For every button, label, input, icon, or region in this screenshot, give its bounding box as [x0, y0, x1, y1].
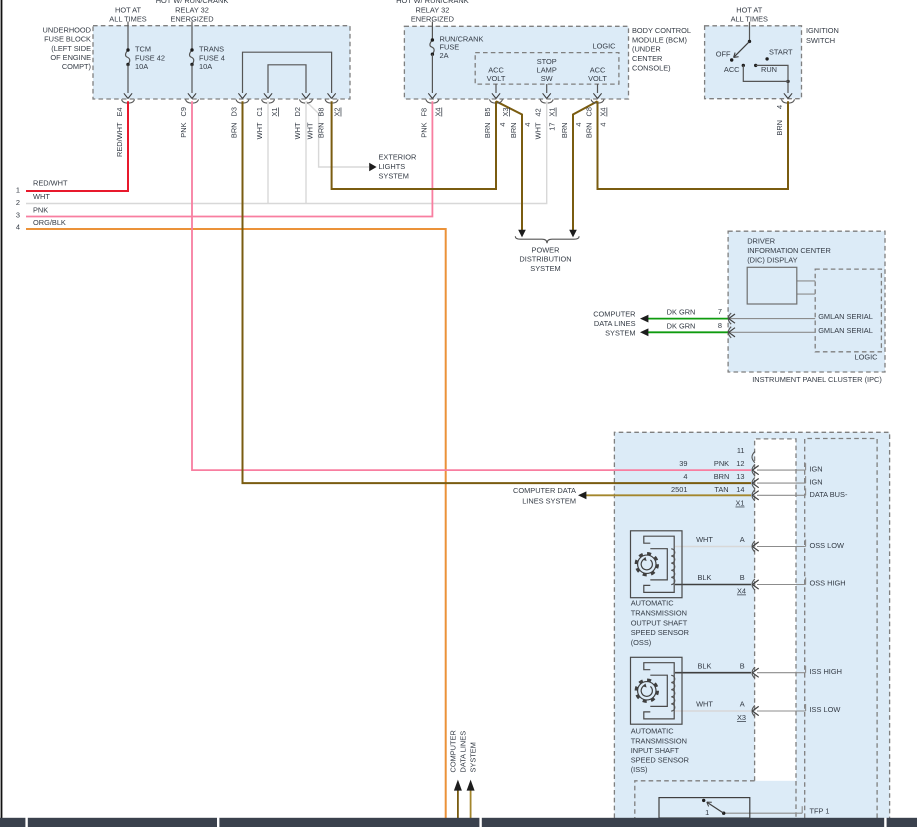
svg-text:BRN: BRN: [230, 123, 239, 139]
svg-text:COMPT): COMPT): [62, 62, 91, 71]
svg-text:SWITCH: SWITCH: [806, 36, 835, 45]
svg-text:TCM: TCM: [135, 45, 151, 54]
svg-text:4: 4: [574, 123, 583, 127]
svg-text:OSS LOW: OSS LOW: [810, 541, 845, 550]
svg-text:WHT: WHT: [696, 535, 713, 544]
svg-text:X4: X4: [737, 587, 746, 596]
svg-text:13: 13: [736, 472, 744, 481]
svg-text:1: 1: [16, 186, 20, 195]
svg-text:GMLAN SERIAL: GMLAN SERIAL: [818, 312, 873, 321]
svg-text:TRANSMISSION: TRANSMISSION: [631, 609, 687, 618]
svg-text:ACC: ACC: [724, 65, 740, 74]
svg-text:OFF: OFF: [716, 50, 731, 59]
svg-text:INPUT SHAFT: INPUT SHAFT: [631, 746, 680, 755]
svg-text:BRN: BRN: [483, 123, 492, 139]
svg-text:START: START: [769, 47, 793, 56]
svg-text:ORG/BLK: ORG/BLK: [33, 218, 66, 227]
svg-text:BODY CONTROL: BODY CONTROL: [632, 26, 691, 35]
svg-text:2A: 2A: [440, 51, 449, 60]
svg-text:AUTOMATIC: AUTOMATIC: [631, 599, 675, 608]
svg-text:8: 8: [718, 321, 722, 330]
svg-text:VOLT: VOLT: [487, 74, 506, 83]
svg-text:RELAY 32: RELAY 32: [175, 5, 209, 14]
svg-text:DISTRIBUTION: DISTRIBUTION: [519, 255, 571, 264]
svg-text:OUTPUT SHAFT: OUTPUT SHAFT: [631, 618, 688, 627]
svg-text:17: 17: [548, 123, 557, 131]
svg-text:RUN: RUN: [761, 65, 777, 74]
svg-text:INFORMATION CENTER: INFORMATION CENTER: [747, 246, 831, 255]
svg-text:42: 42: [534, 108, 543, 116]
svg-text:DATA LINES: DATA LINES: [458, 731, 467, 773]
svg-text:X1: X1: [270, 107, 279, 116]
svg-text:ALL TIMES: ALL TIMES: [109, 15, 146, 24]
svg-text:DATA LINES: DATA LINES: [594, 319, 636, 328]
svg-text:(DIC) DISPLAY: (DIC) DISPLAY: [747, 255, 797, 264]
svg-text:UNDERHOOD: UNDERHOOD: [43, 26, 91, 35]
svg-text:HOT W/ RUN/CRANK: HOT W/ RUN/CRANK: [156, 0, 229, 5]
svg-text:(OSS): (OSS): [631, 638, 652, 647]
svg-text:TRANSMISSION: TRANSMISSION: [631, 736, 687, 745]
svg-text:SYSTEM: SYSTEM: [468, 742, 477, 772]
svg-text:C1: C1: [255, 107, 264, 116]
svg-text:INSTRUMENT PANEL CLUSTER (IPC): INSTRUMENT PANEL CLUSTER (IPC): [752, 375, 882, 384]
svg-text:COMPUTER: COMPUTER: [448, 730, 457, 772]
svg-text:D3: D3: [230, 107, 239, 116]
svg-text:WHT: WHT: [696, 700, 713, 709]
svg-text:DATA BUS-: DATA BUS-: [810, 490, 848, 499]
svg-text:DK GRN: DK GRN: [667, 308, 696, 317]
svg-text:IGNITION: IGNITION: [806, 26, 839, 35]
svg-text:ISS LOW: ISS LOW: [810, 705, 841, 714]
svg-text:4: 4: [16, 223, 20, 232]
svg-text:(ISS): (ISS): [631, 765, 648, 774]
svg-text:FUSE 42: FUSE 42: [135, 53, 165, 62]
svg-text:EXTERIOR: EXTERIOR: [379, 153, 417, 162]
svg-text:VOLT: VOLT: [588, 74, 607, 83]
svg-text:RED/WHT: RED/WHT: [33, 179, 68, 188]
svg-text:BRN: BRN: [509, 123, 518, 139]
svg-text:X4: X4: [433, 107, 442, 116]
svg-text:HOT W/ RUN/CRANK: HOT W/ RUN/CRANK: [396, 0, 469, 5]
svg-text:TFP 1: TFP 1: [810, 806, 830, 815]
svg-text:WHT: WHT: [293, 122, 302, 139]
svg-text:LOGIC: LOGIC: [593, 42, 617, 51]
svg-text:OSS HIGH: OSS HIGH: [810, 579, 846, 588]
svg-text:C9: C9: [179, 107, 188, 116]
svg-text:WHT: WHT: [534, 122, 543, 139]
svg-text:LIGHTS: LIGHTS: [379, 162, 406, 171]
svg-text:2: 2: [16, 198, 20, 207]
svg-text:B8: B8: [317, 107, 326, 116]
svg-text:4: 4: [599, 123, 608, 127]
svg-text:HOT AT: HOT AT: [115, 5, 141, 14]
svg-text:X4: X4: [599, 107, 608, 116]
svg-text:TRANS: TRANS: [199, 45, 224, 54]
svg-text:PNK: PNK: [714, 459, 729, 468]
svg-text:RELAY 32: RELAY 32: [415, 5, 449, 14]
svg-text:FUSE BLOCK: FUSE BLOCK: [44, 35, 91, 44]
svg-text:ENERGIZED: ENERGIZED: [411, 15, 454, 24]
svg-text:D2: D2: [293, 107, 302, 116]
svg-text:BLK: BLK: [698, 661, 712, 670]
svg-text:MODULE (BCM): MODULE (BCM): [632, 35, 687, 44]
svg-text:X1: X1: [548, 107, 557, 116]
svg-text:X2: X2: [333, 107, 342, 116]
svg-text:PNK: PNK: [419, 122, 428, 137]
svg-text:(LEFT SIDE: (LEFT SIDE: [51, 44, 91, 53]
svg-text:A: A: [740, 535, 745, 544]
svg-text:OF ENGINE: OF ENGINE: [50, 53, 91, 62]
svg-text:12: 12: [736, 459, 744, 468]
svg-text:10A: 10A: [199, 62, 212, 71]
svg-text:GMLAN SERIAL: GMLAN SERIAL: [818, 326, 873, 335]
svg-text:X1: X1: [735, 499, 744, 508]
svg-text:SPEED SENSOR: SPEED SENSOR: [631, 756, 689, 765]
svg-text:SYSTEM: SYSTEM: [530, 264, 560, 273]
svg-text:FUSE 4: FUSE 4: [199, 53, 225, 62]
svg-text:DK GRN: DK GRN: [667, 321, 696, 330]
svg-text:SPEED SENSOR: SPEED SENSOR: [631, 628, 689, 637]
svg-text:11: 11: [737, 446, 745, 455]
svg-text:B: B: [740, 573, 745, 582]
svg-text:LOGIC: LOGIC: [855, 352, 879, 361]
svg-text:X3: X3: [737, 713, 746, 722]
svg-text:B5: B5: [483, 107, 492, 116]
svg-text:3: 3: [16, 210, 20, 219]
svg-text:7: 7: [718, 307, 722, 316]
svg-text:ALL TIMES: ALL TIMES: [731, 15, 768, 24]
svg-text:IGN: IGN: [810, 477, 823, 486]
svg-text:SW: SW: [541, 74, 553, 83]
svg-text:POWER: POWER: [532, 245, 560, 254]
svg-text:BRN: BRN: [560, 123, 569, 139]
svg-text:CENTER: CENTER: [632, 54, 662, 63]
svg-text:AUTOMATIC: AUTOMATIC: [631, 727, 675, 736]
svg-text:BRN: BRN: [585, 123, 594, 139]
svg-text:TAN: TAN: [714, 485, 728, 494]
svg-text:PNK: PNK: [33, 206, 48, 215]
svg-text:COMPUTER DATA: COMPUTER DATA: [513, 486, 576, 495]
svg-text:BRN: BRN: [714, 472, 730, 481]
svg-text:BRN: BRN: [775, 120, 784, 136]
svg-text:BLK: BLK: [698, 573, 712, 582]
svg-text:4: 4: [523, 123, 532, 127]
svg-text:(UNDER: (UNDER: [632, 45, 661, 54]
svg-text:BRN: BRN: [317, 123, 326, 139]
svg-text:LINES SYSTEM: LINES SYSTEM: [522, 496, 576, 505]
svg-text:2501: 2501: [671, 485, 687, 494]
svg-text:ENERGIZED: ENERGIZED: [170, 15, 213, 24]
svg-text:B: B: [740, 661, 745, 670]
svg-text:IGN: IGN: [810, 464, 823, 473]
svg-text:COMPUTER: COMPUTER: [593, 310, 635, 319]
svg-text:ISS HIGH: ISS HIGH: [810, 667, 842, 676]
svg-text:39: 39: [679, 459, 687, 468]
svg-text:4: 4: [683, 472, 687, 481]
svg-text:10A: 10A: [135, 62, 148, 71]
svg-text:4: 4: [775, 105, 784, 109]
svg-text:X3: X3: [501, 107, 510, 116]
svg-text:RED/WHT: RED/WHT: [115, 122, 124, 157]
svg-text:E4: E4: [115, 107, 124, 116]
svg-text:A: A: [740, 700, 745, 709]
svg-text:HOT AT: HOT AT: [736, 5, 762, 14]
svg-text:F8: F8: [419, 108, 428, 117]
svg-text:SYSTEM: SYSTEM: [379, 171, 409, 180]
svg-text:CONSOLE): CONSOLE): [632, 63, 671, 72]
svg-text:WHT: WHT: [255, 122, 264, 139]
svg-text:14: 14: [736, 485, 744, 494]
svg-text:SYSTEM: SYSTEM: [605, 328, 635, 337]
svg-text:4: 4: [498, 123, 507, 127]
svg-text:PNK: PNK: [179, 122, 188, 137]
svg-text:1: 1: [705, 808, 709, 817]
svg-text:WHT: WHT: [306, 122, 315, 139]
svg-text:DRIVER: DRIVER: [747, 237, 775, 246]
svg-text:C8: C8: [585, 107, 594, 116]
svg-text:WHT: WHT: [33, 192, 50, 201]
